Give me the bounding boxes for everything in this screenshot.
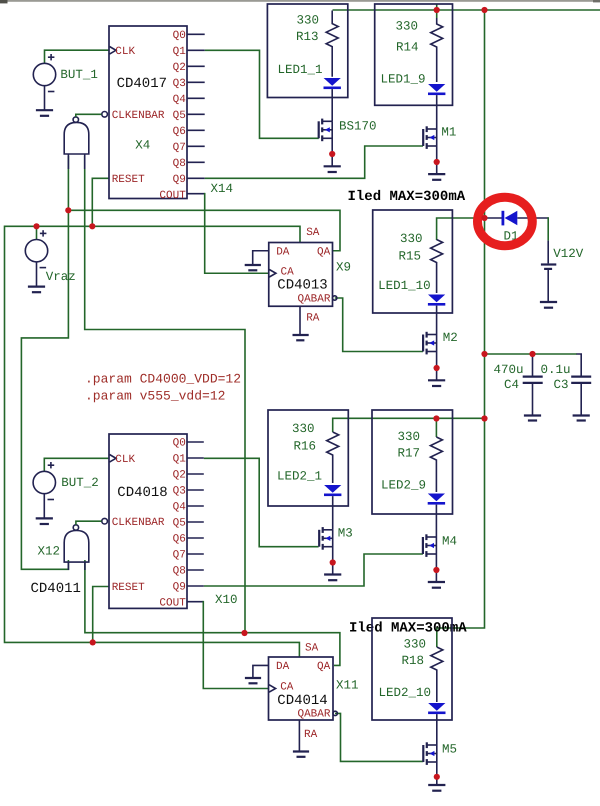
svg-text:SA: SA xyxy=(305,643,319,655)
wire R16 R17 feed rail y=418 xyxy=(333,418,485,432)
svg-text:Q4: Q4 xyxy=(173,502,187,514)
svg-text:CLKENBAR: CLKENBAR xyxy=(112,517,165,529)
ground at RA xyxy=(293,750,309,752)
svg-text:Q0: Q0 xyxy=(173,438,186,450)
subcircuit box LED2_9 xyxy=(372,410,453,514)
pin CA triangle xyxy=(269,685,276,693)
resistor R13 xyxy=(296,11,338,77)
svg-text:CLK: CLK xyxy=(115,454,135,466)
svg-text:LED2_9: LED2_9 xyxy=(381,479,426,493)
svg-text:M3: M3 xyxy=(338,526,353,540)
wire X12 input B to QA rail of CD4014 xyxy=(85,560,340,665)
wire C4 ground lead xyxy=(532,384,534,416)
IC U-X9 CD4013 body xyxy=(245,227,351,340)
pin Q3 stub xyxy=(187,81,205,83)
wire reset net: CD4013 SA rail left edge down to CD4014 SA xyxy=(5,226,301,657)
capacitor C4 xyxy=(494,363,543,392)
NAND gate X4 (CD4011) pointing up xyxy=(64,114,101,169)
svg-text:Q2: Q2 xyxy=(173,62,186,74)
pin Q4 stub xyxy=(187,505,204,507)
svg-text:Q7: Q7 xyxy=(173,550,186,562)
wire CD4017 Q9 to M1 gate xyxy=(205,146,423,178)
svg-text:Q6: Q6 xyxy=(173,534,186,546)
svg-text:330: 330 xyxy=(400,232,423,246)
pin Q8 stub xyxy=(187,569,204,571)
svg-text:Q8: Q8 xyxy=(173,158,186,170)
svg-text:M2: M2 xyxy=(443,331,458,345)
pin CLKENBAR bubble xyxy=(102,518,108,524)
svg-text:CD4014: CD4014 xyxy=(277,693,327,709)
svg-text:0.1u: 0.1u xyxy=(541,363,571,377)
transistor BS170 (nmos) xyxy=(319,119,377,167)
pin RA stub xyxy=(299,306,301,335)
pin Q3 stub xyxy=(187,489,204,491)
svg-text:RA: RA xyxy=(306,312,320,324)
svg-text:M5: M5 xyxy=(442,743,457,757)
svg-text:CD4017: CD4017 xyxy=(117,76,167,92)
svg-text:330: 330 xyxy=(296,13,319,27)
pin RA stub xyxy=(298,720,300,752)
svg-text:BUT_2: BUT_2 xyxy=(61,476,99,490)
LED LED1_10 xyxy=(378,279,445,334)
wire CD4017 RESET to rail xyxy=(92,178,109,226)
ground of C3 xyxy=(573,416,590,421)
wire CD4013 QABAR to M2 gate xyxy=(335,298,423,352)
svg-text:CD4011: CD4011 xyxy=(31,581,81,597)
svg-text:CD4018: CD4018 xyxy=(117,485,167,501)
svg-text:Q2: Q2 xyxy=(173,470,186,482)
svg-text:X4: X4 xyxy=(135,138,150,152)
wire V12V top rail xyxy=(333,9,600,11)
svg-text:X14: X14 xyxy=(211,182,234,196)
svg-text:R13: R13 xyxy=(296,30,319,44)
ground of BUT_1 xyxy=(36,110,53,116)
wire R15 top to D1 anode node xyxy=(437,218,485,240)
svg-text:R17: R17 xyxy=(397,447,420,461)
node BS170 source xyxy=(329,151,335,157)
pin Q6 stub xyxy=(187,537,204,539)
svg-text:Q1: Q1 xyxy=(173,454,187,466)
svg-text:LED1_1: LED1_1 xyxy=(277,63,322,77)
node M1 source xyxy=(434,159,440,165)
pin COUT stub CD4018 xyxy=(187,601,203,603)
ground of M5 xyxy=(428,785,445,791)
svg-text:M1: M1 xyxy=(441,125,456,139)
subcircuit box LED2_1 xyxy=(268,410,348,506)
node RESET X18 tap xyxy=(90,639,96,645)
resistor R16 xyxy=(292,422,339,483)
svg-text:X10: X10 xyxy=(215,593,238,607)
node D1 anode xyxy=(481,215,487,221)
svg-text:SA: SA xyxy=(306,227,320,239)
node R14 top xyxy=(434,7,440,13)
transistor M1 (nmos) xyxy=(423,125,456,174)
svg-text:LED2_1: LED2_1 xyxy=(277,469,322,483)
svg-text:330: 330 xyxy=(397,430,420,444)
ground at DA xyxy=(245,677,261,679)
node M2 source xyxy=(434,365,440,371)
pin Q5 stub xyxy=(187,113,205,115)
wire CD4018 Q1 to M3 gate xyxy=(204,458,319,546)
svg-text:CLK: CLK xyxy=(115,46,135,58)
node X14 rail xyxy=(65,207,71,213)
wire Vraz plus stub xyxy=(36,226,38,240)
pin Q2 stub xyxy=(187,473,204,475)
ground of M3 xyxy=(324,575,341,581)
svg-text:BS170: BS170 xyxy=(339,119,377,133)
node Vraz tap xyxy=(33,223,39,229)
voltage source BUT_2 xyxy=(33,462,99,500)
svg-text:330: 330 xyxy=(395,20,418,34)
svg-text:QA: QA xyxy=(317,246,331,258)
resistor R15 xyxy=(398,232,442,293)
svg-text:Q5: Q5 xyxy=(173,518,186,530)
wire CD4017 COUT to CD4013 CA xyxy=(205,193,269,273)
transistor M3 (nmos) xyxy=(319,526,353,574)
pin Q4 stub xyxy=(187,97,205,99)
pin CLK triangle xyxy=(110,455,117,463)
svg-text:M4: M4 xyxy=(442,535,457,549)
ground of M1 xyxy=(428,174,445,180)
svg-text:X11: X11 xyxy=(336,679,359,693)
wire supply rail to C3 corner xyxy=(485,353,578,355)
wire CD4018 COUT to CD4014 CA xyxy=(203,601,268,689)
wire D1 anode lead xyxy=(485,217,502,219)
svg-text:C3: C3 xyxy=(554,378,569,392)
wire R14 top stub xyxy=(436,4,438,18)
wire X4 input B run to CD4014 QA rail xyxy=(85,156,245,633)
wire V12V vertical feed x=484.5 down to R18 xyxy=(437,10,485,647)
svg-text:Iled MAX=300mA: Iled MAX=300mA xyxy=(348,189,466,205)
svg-text:R16: R16 xyxy=(293,440,316,454)
capacitor C3 xyxy=(541,363,592,392)
pin CA triangle xyxy=(269,270,276,278)
transistor M2 (nmos) xyxy=(423,331,458,380)
pin COUT stub CD4017 xyxy=(187,193,205,195)
IC U-X? CD4018 body xyxy=(102,434,204,610)
svg-text:DA: DA xyxy=(276,661,290,673)
pin Q5 stub xyxy=(187,521,204,523)
NAND gate X12 (CD4011) pointing up xyxy=(38,521,102,570)
pin QABAR bubble xyxy=(333,711,337,715)
svg-text:330: 330 xyxy=(292,422,315,436)
svg-text:CD4013: CD4013 xyxy=(277,278,327,294)
ground of BS170 xyxy=(324,166,341,172)
battery V12V xyxy=(541,247,584,269)
svg-text:QABAR: QABAR xyxy=(297,709,330,721)
pin Q7 stub xyxy=(187,145,205,147)
svg-text:Iled MAX=300mA: Iled MAX=300mA xyxy=(349,620,467,636)
svg-text:V12V: V12V xyxy=(553,247,584,261)
pin Q0 stub xyxy=(187,33,205,35)
pin Q1 stub xyxy=(187,49,205,51)
svg-text:R18: R18 xyxy=(401,654,424,668)
svg-text:Q1: Q1 xyxy=(173,46,187,58)
pin DA stub xyxy=(253,251,269,265)
resistor R14 xyxy=(395,18,442,82)
svg-text:R14: R14 xyxy=(396,41,419,55)
wire node X14 rail to CD4013 QA xyxy=(68,210,340,250)
pin DA stub xyxy=(253,665,269,678)
svg-text:QABAR: QABAR xyxy=(297,293,330,305)
subcircuit box LED1_1 xyxy=(267,4,347,98)
svg-text:CLKENBAR: CLKENBAR xyxy=(112,110,165,122)
subcircuit box LED1_9 xyxy=(375,4,453,105)
wire C4 top lead xyxy=(532,354,534,376)
pin Q8 stub xyxy=(187,161,205,163)
diode D1 xyxy=(503,211,519,244)
ground of BUT_2 xyxy=(36,518,53,524)
pin QABAR bubble xyxy=(333,296,337,300)
svg-text:RESET: RESET xyxy=(112,582,145,594)
wire CD4017 Q1 to BS170 gate xyxy=(205,50,319,138)
ground of M2 xyxy=(428,380,445,386)
svg-text:X12: X12 xyxy=(38,545,61,559)
node M5 source xyxy=(434,774,440,780)
LED LED2_1 xyxy=(277,469,341,529)
node RESET X4 tap xyxy=(89,223,95,229)
node C4 tap xyxy=(529,351,535,357)
node V12V rail top xyxy=(481,7,487,13)
svg-text:C4: C4 xyxy=(504,378,519,392)
node M3 source xyxy=(330,559,336,565)
pin Q1 stub xyxy=(187,457,204,459)
svg-text:LED1_9: LED1_9 xyxy=(380,73,425,87)
ground of C4 xyxy=(524,416,541,421)
LED LED2_10 xyxy=(378,686,445,745)
resistor R17 xyxy=(397,430,442,492)
pin Q7 stub xyxy=(187,553,204,555)
wire C3 ground lead xyxy=(580,384,582,416)
svg-text:Q6: Q6 xyxy=(173,126,186,138)
svg-text:470u: 470u xyxy=(494,363,524,377)
wire corner down to V12V battery xyxy=(547,217,549,240)
svg-text:DA: DA xyxy=(276,246,290,258)
svg-text:LED2_10: LED2_10 xyxy=(378,686,431,700)
ground of M4 xyxy=(428,582,445,588)
pin Q0 stub xyxy=(187,441,204,443)
wire D1 cathode lead to corner xyxy=(517,217,548,219)
wire CD4018 Q9 to M4 gate xyxy=(204,554,423,586)
wire X4 input A long run to X12 input A xyxy=(21,156,68,569)
node C rail left xyxy=(481,351,487,357)
wire BUT_2 ground lead xyxy=(43,493,45,518)
resistor R18 xyxy=(401,637,442,702)
svg-text:Q0: Q0 xyxy=(173,30,186,42)
svg-text:.param CD4000_VDD=12: .param CD4000_VDD=12 xyxy=(85,372,241,387)
IC U-X4 CD4017 body xyxy=(102,26,205,202)
voltage source BUT_1 xyxy=(33,54,98,92)
voltage source Vraz xyxy=(25,230,75,284)
svg-text:Q5: Q5 xyxy=(173,110,186,122)
svg-text:RESET: RESET xyxy=(112,174,145,186)
svg-text:QA: QA xyxy=(317,661,331,673)
svg-text:Q9: Q9 xyxy=(173,174,186,186)
node rail x484 y418 xyxy=(481,415,487,421)
ground of V12V xyxy=(540,302,557,308)
svg-text:Q4: Q4 xyxy=(173,94,187,106)
svg-text:Q3: Q3 xyxy=(173,78,186,90)
window border top strip xyxy=(0,0,600,3)
node M4 source xyxy=(433,567,439,573)
pin CLK triangle xyxy=(110,47,117,55)
svg-text:BUT_1: BUT_1 xyxy=(60,68,98,82)
svg-text:COUT: COUT xyxy=(159,190,186,202)
wire V12V battery to ground xyxy=(547,269,549,302)
svg-text:COUT: COUT xyxy=(159,598,186,610)
IC U-X11 CD4014 body xyxy=(245,643,359,757)
pin Q2 stub xyxy=(187,65,205,67)
subcircuit box LED2_10 xyxy=(372,618,452,720)
subcircuit box LED1_10 xyxy=(373,210,453,313)
transistor M4 (nmos) xyxy=(423,534,457,582)
wire C3 top lead xyxy=(577,354,582,376)
ground of Vraz xyxy=(28,287,45,293)
ground at DA xyxy=(245,264,261,266)
pin Q6 stub xyxy=(187,129,205,131)
svg-text:LED1_10: LED1_10 xyxy=(378,279,431,293)
wire Vraz ground lead xyxy=(36,262,38,287)
wire CD4018 RESET to bottom rail xyxy=(93,587,109,643)
LED LED1_9 xyxy=(380,73,445,129)
svg-text:R15: R15 xyxy=(398,249,421,263)
svg-text:Vraz: Vraz xyxy=(46,270,76,284)
svg-text:330: 330 xyxy=(403,637,426,651)
svg-text:Q7: Q7 xyxy=(173,142,186,154)
svg-text:.param v555_vdd=12: .param v555_vdd=12 xyxy=(85,388,225,403)
annotation red circle around D1 xyxy=(478,197,533,245)
svg-text:Q9: Q9 xyxy=(173,582,186,594)
transistor M5 (nmos) xyxy=(423,742,457,785)
wire R17 top lead xyxy=(435,419,437,438)
wire BUT_1 ground lead xyxy=(44,85,46,110)
svg-text:CA: CA xyxy=(280,682,294,694)
svg-text:X9: X9 xyxy=(336,261,351,275)
node R17 tap xyxy=(433,415,439,421)
svg-text:RA: RA xyxy=(304,729,318,741)
pin Q9 stub xyxy=(187,585,204,587)
LED LED1_1 xyxy=(277,63,340,121)
wire CD4014 QABAR to M5 gate xyxy=(335,713,423,761)
LED LED2_9 xyxy=(381,479,445,537)
node QA rail tap xyxy=(241,630,247,636)
svg-text:Q3: Q3 xyxy=(173,486,186,498)
ground at RA xyxy=(293,334,309,336)
wire BUT_2 to CD4018 CLK xyxy=(44,458,108,472)
pin CLKENBAR bubble xyxy=(102,112,108,118)
wire BUT_1 to CD4017 CLK xyxy=(45,50,109,64)
pin Q9 stub xyxy=(187,177,205,179)
svg-text:Q8: Q8 xyxy=(173,566,186,578)
